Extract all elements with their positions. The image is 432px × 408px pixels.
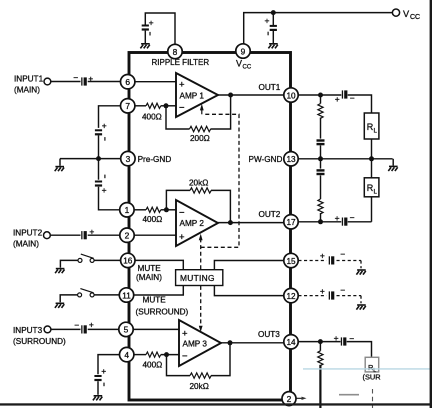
- svg-text:+: +: [102, 121, 107, 131]
- svg-text:INPUT1: INPUT1: [14, 74, 44, 83]
- ground (SW1): [55, 269, 64, 274]
- pin 7: [121, 99, 135, 113]
- wire: pin17 OUT2 row: [298, 221, 341, 223]
- pin 14: [284, 335, 298, 349]
- svg-text:3: 3: [126, 154, 131, 164]
- svg-text:−: −: [74, 320, 79, 330]
- svg-text:+: +: [320, 286, 325, 296]
- svg-text:8: 8: [173, 47, 178, 57]
- op-amp U1 AMP1: [135, 81, 176, 83]
- svg-text:+: +: [320, 251, 325, 261]
- ground (pin12): [356, 305, 365, 310]
- svg-text:−: −: [73, 73, 78, 83]
- svg-text:20kΩ: 20kΩ: [189, 179, 208, 188]
- wire: pin9 to top Vcc rail: [244, 13, 393, 46]
- pin 12: [284, 288, 298, 302]
- svg-text:+: +: [101, 366, 106, 376]
- svg-text:CC: CC: [243, 65, 252, 71]
- node: Vcc rail junction: [271, 10, 276, 15]
- pin 9: [236, 44, 250, 58]
- dashed mute control to AMP1: [201, 114, 239, 247]
- svg-text:(SURROUND): (SURROUND): [13, 337, 66, 346]
- wire: pin13 PW-GND row: [298, 158, 393, 160]
- svg-text:V: V: [403, 9, 410, 19]
- ground (SW2): [55, 303, 64, 308]
- svg-text:400Ω: 400Ω: [142, 113, 162, 122]
- ground (pin15): [356, 270, 365, 275]
- zobel R (out1): [320, 95, 322, 104]
- wire: cap to ground: [272, 31, 274, 43]
- wire: C7 to pre-GND rail: [98, 135, 100, 158]
- load RL2: [371, 159, 373, 178]
- dashed pin12 external: [298, 295, 326, 297]
- artifact cyan line: [303, 368, 432, 370]
- wire: INPUT3 to coupling cap: [51, 328, 81, 330]
- wire: RL1 to PW-GND rail: [371, 139, 373, 159]
- capacitor C-in3: [81, 325, 87, 333]
- svg-text:Pre-GND: Pre-GND: [138, 155, 172, 164]
- svg-text:7: 7: [125, 101, 130, 111]
- svg-text:15: 15: [286, 257, 296, 266]
- load RL3 (surround, faded): [365, 357, 379, 372]
- resistor 400ohm (pin7): [146, 103, 161, 108]
- wire: cap to pin 6: [88, 81, 121, 83]
- feedback loop AMP1: [166, 106, 190, 129]
- ground (C4): [93, 396, 102, 401]
- feedback loop AMP2 (20k): [166, 190, 190, 209]
- svg-text:9: 9: [241, 46, 246, 56]
- svg-text:+: +: [102, 185, 107, 195]
- svg-text:+: +: [265, 16, 270, 26]
- capacitor C15: [329, 256, 335, 264]
- svg-text:2: 2: [125, 231, 130, 241]
- svg-text:+: +: [89, 320, 94, 330]
- capacitor C-in2: [81, 231, 87, 239]
- svg-text:13: 13: [286, 155, 296, 164]
- wire: pin12 to MUTING: [214, 286, 284, 296]
- svg-text:OUT2: OUT2: [259, 210, 281, 219]
- svg-text:−: −: [182, 351, 188, 362]
- capacitor C-out3: [341, 337, 347, 345]
- svg-text:6: 6: [125, 77, 130, 87]
- svg-text:+: +: [149, 18, 154, 28]
- wire: C4 to ground: [97, 381, 99, 395]
- pin 6: [121, 75, 135, 89]
- switch SW1 (mute main): [94, 259, 120, 261]
- dashed pin15 external: [298, 260, 326, 262]
- wire: pin2 stub: [296, 397, 303, 399]
- resistor 200ohm: [190, 126, 211, 131]
- svg-text:(SUR: (SUR: [363, 373, 381, 382]
- wire: cap to pin 5: [88, 328, 119, 330]
- svg-text:+: +: [182, 329, 188, 340]
- svg-text:INPUT2: INPUT2: [13, 228, 43, 237]
- node on pre-GND rail: [96, 156, 101, 161]
- svg-text:(MAIN): (MAIN): [14, 85, 40, 94]
- wire: pin3 pre-GND to ground: [60, 158, 121, 160]
- svg-text:4: 4: [124, 350, 129, 360]
- wire: cap to RL1: [348, 95, 372, 113]
- wire: pin10 OUT1 row: [298, 94, 341, 96]
- resistor 400ohm (pin1): [146, 207, 161, 212]
- dashed mute control to AMP3: [200, 286, 202, 326]
- zobel R (out2): [318, 199, 323, 214]
- svg-text:5: 5: [124, 325, 129, 335]
- svg-text:17: 17: [286, 218, 296, 227]
- capacitor C-in1: [81, 77, 87, 85]
- svg-text:OUT1: OUT1: [259, 83, 281, 92]
- resistor 400ohm (pin4): [146, 352, 161, 357]
- right page border: [430, 0, 432, 408]
- wire: INPUT2 to coupling cap: [50, 234, 80, 236]
- svg-text:20kΩ: 20kΩ: [190, 382, 209, 391]
- zobel R (out3): [319, 342, 321, 351]
- ground (ripple filter cap): [140, 44, 149, 49]
- capacitor C4 (pin4 decoupling): [94, 375, 101, 381]
- wire: cap to RL3: [347, 342, 372, 358]
- wire: cap to pin 2: [88, 234, 120, 236]
- wire: pin4 to C4: [98, 355, 120, 375]
- svg-text:1: 1: [125, 205, 130, 215]
- svg-text:MUTE: MUTE: [138, 264, 162, 273]
- pin 16: [121, 253, 135, 267]
- wire: pin16 to MUTING: [135, 260, 183, 269]
- capacitor C-out2: [342, 218, 348, 226]
- pin 17: [284, 215, 298, 229]
- wire: INPUT1 to coupling cap: [51, 81, 81, 83]
- zobel C (out1): [317, 139, 325, 141]
- svg-text:PW-GND: PW-GND: [249, 155, 283, 164]
- op-amp U3 AMP3: [133, 328, 179, 330]
- artifact gray dash: [339, 394, 359, 396]
- svg-text:16: 16: [123, 257, 133, 266]
- svg-text:MUTING: MUTING: [180, 273, 215, 283]
- zobel C (out2): [320, 159, 322, 169]
- pin 5: [119, 322, 133, 336]
- svg-text:11: 11: [122, 291, 131, 300]
- pin 3: [121, 151, 135, 165]
- MUTING block: [176, 270, 223, 286]
- svg-text:(MAIN): (MAIN): [136, 273, 162, 282]
- wire: pin8 to ripple filter cap: [145, 13, 175, 46]
- pin 13: [284, 152, 298, 166]
- wire: pin7 to decoupling caps: [99, 106, 121, 128]
- artifact dash-dot: [372, 389, 374, 408]
- pin 11: [119, 288, 133, 302]
- svg-text:OUT3: OUT3: [258, 330, 280, 339]
- svg-text:MUTE: MUTE: [143, 296, 167, 305]
- svg-text:−: −: [179, 102, 185, 113]
- svg-text:−: −: [350, 212, 355, 222]
- wire: AMP3 out to pin 14: [221, 342, 284, 344]
- svg-text:200Ω: 200Ω: [190, 134, 210, 143]
- switch SW2 (mute surround): [94, 294, 119, 296]
- capacitor C-out1: [342, 90, 348, 98]
- IC body outline: [129, 53, 291, 401]
- capacitor C7 (pin7 decoupling): [95, 129, 102, 135]
- feedback loop AMP3 (20k): [167, 355, 191, 376]
- pin 8: [168, 44, 182, 58]
- svg-text:2: 2: [287, 394, 292, 404]
- svg-text:−: −: [179, 208, 185, 219]
- wire: AMP2 out to pin 17: [218, 222, 284, 224]
- bottom page rule: [0, 403, 432, 405]
- wire: pin11 to MUTING: [134, 286, 184, 296]
- ground (pre-GND): [55, 167, 64, 172]
- svg-text:RIPPLE FILTER: RIPPLE FILTER: [152, 58, 210, 67]
- wire: rail to C1: [98, 159, 100, 180]
- svg-text:10: 10: [286, 91, 296, 100]
- dashed mute control to AMP2: [200, 240, 202, 269]
- svg-text:AMP 2: AMP 2: [180, 219, 205, 228]
- svg-text:−: −: [340, 249, 345, 259]
- svg-text:+: +: [179, 232, 185, 243]
- wire: ripple cap to ground: [144, 31, 146, 43]
- pin 10: [284, 88, 298, 102]
- svg-text:AMP 1: AMP 1: [180, 92, 205, 101]
- wire: pin14 OUT3 row: [298, 341, 340, 343]
- capacitor C12: [329, 291, 335, 299]
- wire: zobel to bottom (thick): [319, 365, 321, 408]
- pin 15: [284, 253, 298, 267]
- svg-text:L: L: [374, 189, 378, 196]
- ground (PW-GND): [388, 166, 397, 171]
- svg-text:+: +: [335, 94, 340, 104]
- wire: AMP1 out to pin 10: [218, 94, 284, 96]
- capacitor Vcc bypass: [270, 25, 277, 31]
- svg-text:400Ω: 400Ω: [143, 361, 163, 370]
- svg-text:CC: CC: [410, 14, 420, 21]
- svg-text:14: 14: [286, 338, 296, 347]
- svg-text:V: V: [236, 59, 242, 69]
- capacitor ripple filter: [142, 25, 149, 31]
- svg-text:−: −: [340, 285, 345, 295]
- svg-text:L: L: [374, 127, 378, 134]
- svg-text:AMP 3: AMP 3: [183, 339, 208, 348]
- svg-text:+: +: [179, 80, 185, 91]
- svg-text:400Ω: 400Ω: [143, 215, 163, 224]
- wire: C1 to pin 1: [99, 187, 120, 210]
- pin 4: [120, 347, 134, 361]
- svg-text:12: 12: [286, 292, 296, 301]
- ground (Vcc bypass): [268, 44, 277, 49]
- pin 1: [120, 203, 134, 217]
- wire: pin15 to MUTING: [214, 261, 284, 270]
- svg-text:INPUT3: INPUT3: [13, 326, 43, 335]
- svg-text:+: +: [335, 213, 340, 223]
- pin 2 (bottom right): [282, 392, 296, 406]
- pin 2 (left): [120, 228, 134, 242]
- capacitor C1 (pin1 decoupling): [95, 181, 102, 187]
- svg-text:(SURROUND): (SURROUND): [136, 307, 189, 316]
- load RL1: [364, 113, 379, 139]
- Vcc terminal: [392, 9, 399, 16]
- svg-text:(MAIN): (MAIN): [13, 240, 39, 249]
- wire: junction to Vcc bypass cap: [272, 13, 274, 25]
- svg-text:+: +: [334, 333, 339, 343]
